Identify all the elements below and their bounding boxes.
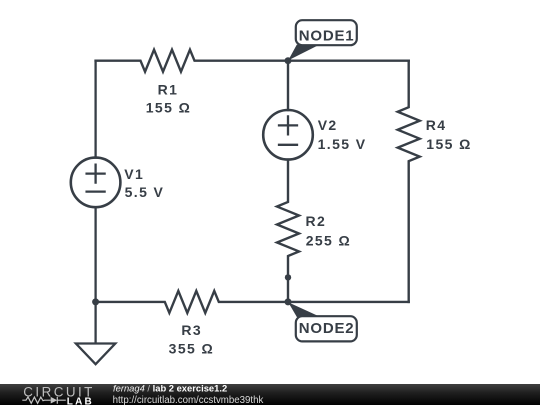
svg-text:http://circuitlab.com/ccstvmbe: http://circuitlab.com/ccstvmbe39thk (113, 395, 264, 405)
svg-text:LAB: LAB (67, 397, 94, 405)
svg-text:fernag4 / lab 2 exercise1.2: fernag4 / lab 2 exercise1.2 (113, 383, 227, 394)
